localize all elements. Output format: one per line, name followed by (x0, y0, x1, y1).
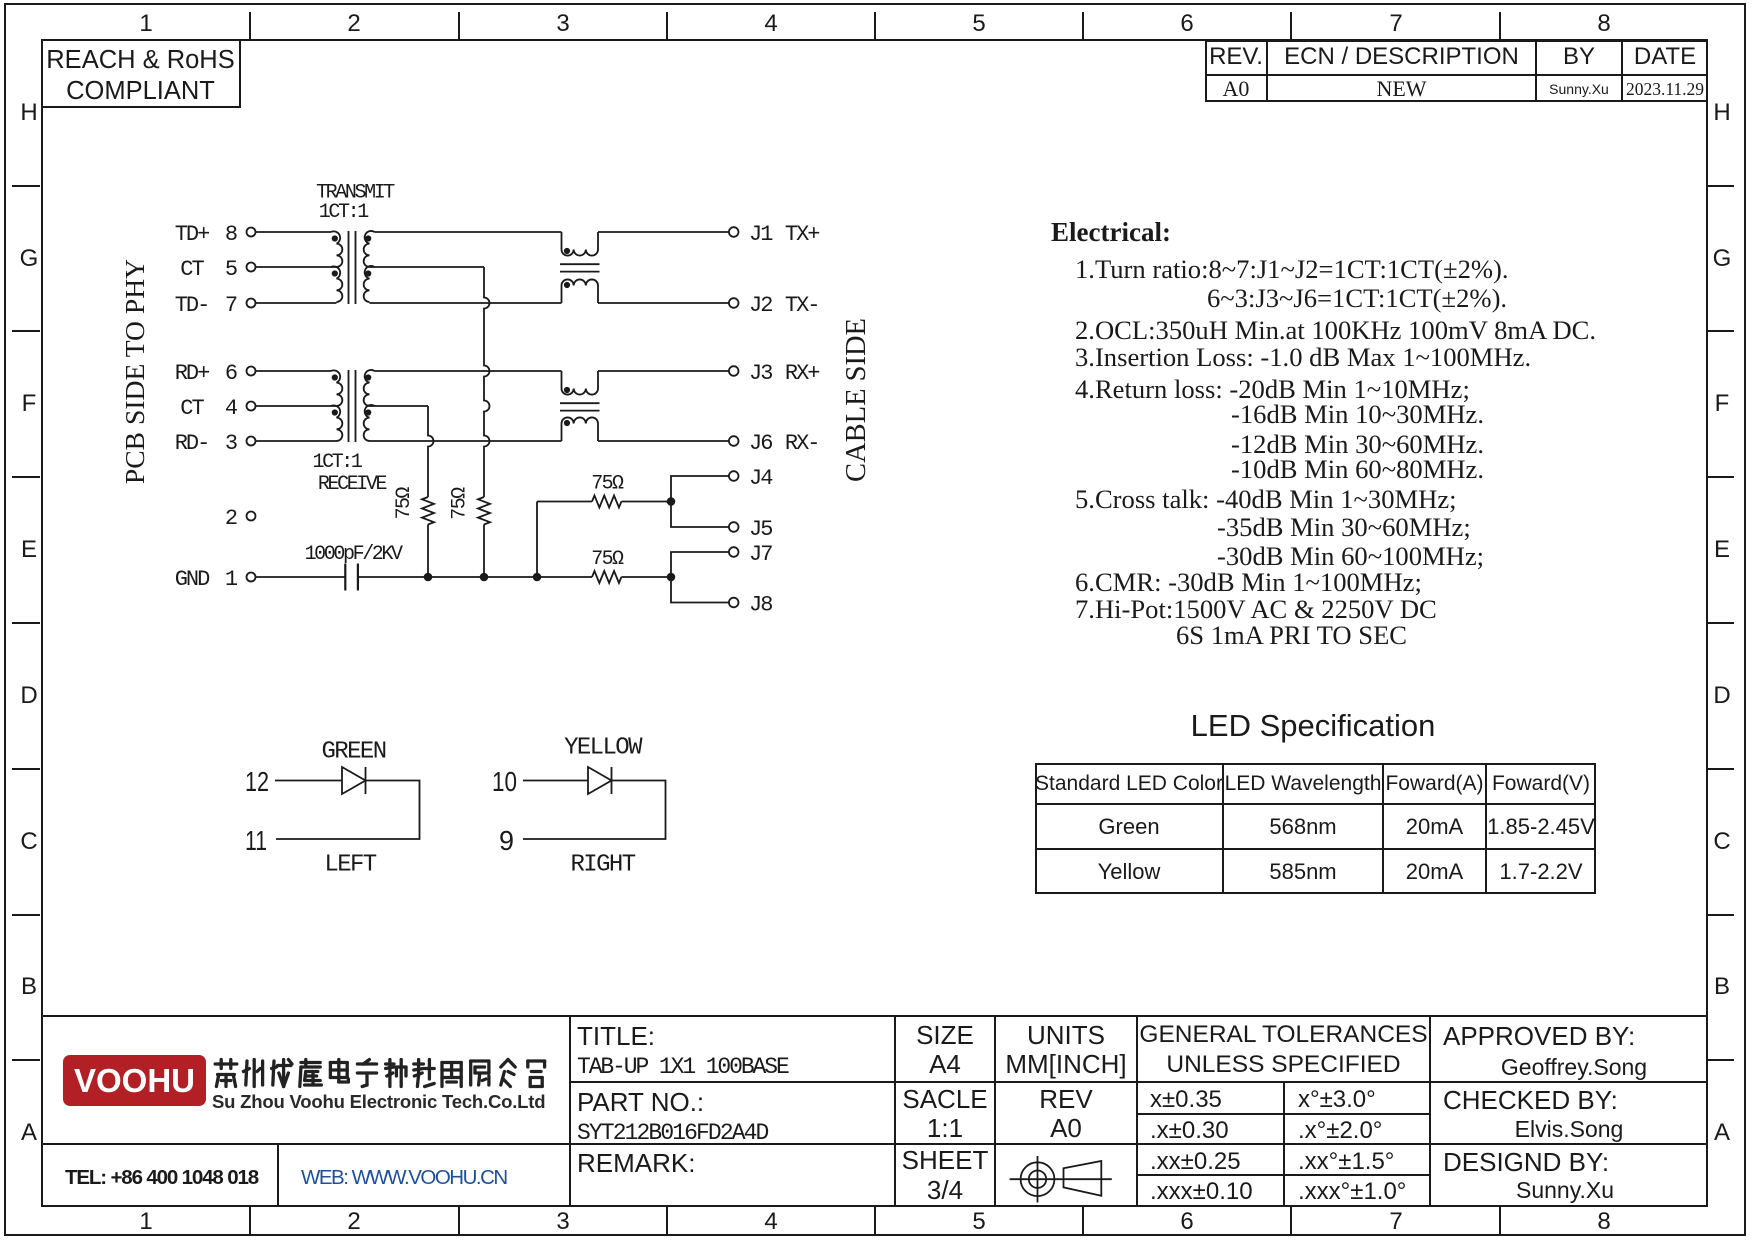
node junction J4/J5 (667, 497, 676, 506)
svg-text:RX-: RX- (785, 431, 819, 456)
pin J1 (TX+) (729, 227, 739, 237)
wire pin row (256, 405, 337, 407)
LED Specification (1043, 708, 1583, 744)
wire GND rail C1 to R4 (358, 576, 592, 578)
transformer T2 (RECEIVE) right winding (364, 370, 375, 406)
svg-text:J1: J1 (749, 222, 773, 247)
wire T1 secondary bottom to choke L1 (370, 302, 562, 304)
wire R4 to J7/J8 junction (621, 576, 671, 578)
svg-text:J4: J4 (749, 466, 773, 491)
node GND rail junction at branch riser (533, 573, 542, 582)
wire pin row (256, 302, 337, 304)
wire vertical from T1 CT to R2 (with crossover hops) (484, 267, 490, 497)
svg-text:10: 10 (492, 766, 517, 797)
wire R3 to J4/J5 junction (621, 501, 671, 503)
wire junction to J4 (671, 476, 729, 502)
svg-text:J2: J2 (749, 293, 772, 318)
wire GND rail to J4/J5 branch riser (536, 502, 538, 578)
wire LED D2 cathode loop to pin 9 (523, 781, 666, 840)
pin J5 (729, 522, 739, 532)
wire R1 to GND rail (427, 525, 429, 578)
svg-text:CABLE SIDE: CABLE SIDE (841, 318, 872, 482)
wire T2 secondary center tap (370, 405, 429, 407)
svg-text:TX+: TX+ (785, 222, 819, 247)
transformer T1 (TRANSMIT) left winding (331, 231, 342, 267)
svg-text:75Ω: 75Ω (448, 487, 471, 520)
resistor R3 75ohm (horizontal) (592, 496, 621, 508)
transformer T2 (RECEIVE) core (348, 370, 350, 442)
svg-text:2: 2 (225, 506, 237, 531)
node GND rail junction at R2 (480, 573, 489, 582)
common-mode choke L2 bottom winding (562, 417, 599, 441)
svg-text:1CT:1: 1CT:1 (312, 451, 362, 474)
svg-text:CT: CT (180, 396, 204, 421)
svg-text:75Ω: 75Ω (591, 472, 624, 495)
svg-text:1000pF/2KV: 1000pF/2KV (305, 543, 403, 566)
svg-text:12: 12 (245, 766, 269, 797)
wire T1 secondary center tap (370, 266, 485, 268)
wire T2 secondary top to choke L2 (375, 370, 562, 372)
title block (42, 1015, 1708, 1017)
svg-text:J3: J3 (749, 361, 772, 386)
svg-text:RX+: RX+ (785, 361, 819, 386)
transformer T2 (RECEIVE) left winding (331, 370, 342, 406)
svg-text:CT: CT (180, 257, 204, 282)
REACH & RoHS COMPLIANT box (42, 40, 241, 108)
first-angle projection symbol (1021, 1162, 1055, 1196)
svg-text:PCB SIDE TO PHY: PCB SIDE TO PHY (119, 259, 150, 484)
svg-text:75Ω: 75Ω (591, 548, 624, 571)
svg-text:8: 8 (225, 222, 237, 247)
wire choke L1 to J1 (598, 231, 729, 233)
svg-text:J5: J5 (749, 517, 772, 542)
wire GND pin to C1 (256, 576, 346, 578)
wire pin row (256, 266, 337, 268)
common-mode choke L2 top winding (562, 371, 599, 395)
wire pin 12 to LED D1 anode (275, 780, 342, 782)
pin J4 (729, 471, 739, 481)
svg-text:LEFT: LEFT (324, 852, 376, 879)
svg-text:RD-: RD- (175, 431, 209, 456)
svg-text:TD-: TD- (175, 293, 209, 318)
common-mode choke L1 top winding (562, 232, 599, 256)
wire junction to J7 (671, 552, 729, 577)
svg-text:1CT:1: 1CT:1 (319, 201, 369, 224)
svg-text:6: 6 (225, 361, 237, 386)
svg-text:RECEIVE: RECEIVE (318, 473, 387, 496)
wire R2 to GND rail (483, 525, 485, 578)
svg-text:3: 3 (225, 431, 237, 456)
resistor R4 75ohm (horizontal, on GND rail) (592, 571, 621, 583)
common-mode choke L2 core (560, 402, 600, 404)
transformer T1 (TRANSMIT) right winding (364, 231, 375, 267)
wire junction to J5 (671, 502, 729, 528)
svg-text:RD+: RD+ (175, 361, 209, 386)
svg-text:1: 1 (225, 567, 238, 592)
svg-text:7: 7 (225, 293, 237, 318)
wire LED D1 cathode loop to pin 11 (276, 781, 420, 840)
pin J7 (729, 547, 739, 557)
svg-text:5: 5 (225, 257, 237, 282)
svg-text:75Ω: 75Ω (393, 487, 416, 520)
svg-text:J7: J7 (749, 542, 772, 567)
pin J6 (RX-) (729, 436, 739, 446)
pin J8 (729, 598, 739, 608)
wire junction to J8 (671, 577, 729, 603)
wire pin row (256, 231, 332, 233)
svg-text:TD+: TD+ (175, 222, 209, 247)
ruler ticks (249, 12, 251, 40)
wire pin row (256, 440, 337, 442)
resistor R1 75ohm (vertical) (422, 497, 434, 524)
capacitor C1 1000pF/2KV (344, 564, 346, 591)
LED D1 (GREEN) diode symbol (342, 767, 366, 794)
node junction J7/J8 (667, 573, 676, 582)
svg-text:RIGHT: RIGHT (570, 852, 635, 879)
wire T2 secondary bottom to choke L2 (370, 440, 562, 442)
svg-text:J6: J6 (749, 431, 772, 456)
common-mode choke L1 core (560, 263, 600, 265)
pin J2 (TX-) (729, 298, 739, 308)
wire choke L2 to J6 (598, 440, 729, 442)
wire vertical from T2 CT to R1 (with crossover hop) (428, 406, 434, 497)
REV / ECN table top right (1205, 40, 1708, 102)
LED D2 (YELLOW) diode symbol (588, 767, 612, 794)
svg-text:9: 9 (499, 825, 514, 856)
svg-text:GREEN: GREEN (321, 739, 385, 766)
transformer T2 (RECEIVE) polarity dots (332, 374, 338, 380)
svg-text:11: 11 (245, 825, 267, 856)
svg-text:GND: GND (175, 567, 210, 592)
Electrical text block (1051, 217, 1171, 248)
transformer T1 (TRANSMIT) polarity dots (332, 235, 338, 241)
ruler labels (126, 10, 166, 38)
svg-text:YELLOW: YELLOW (564, 735, 643, 762)
svg-text:TX-: TX- (785, 293, 819, 318)
wire riser to R3 (537, 501, 592, 503)
wire pin row (256, 370, 332, 372)
svg-text:4: 4 (225, 396, 238, 421)
wire pin 10 to LED D2 anode (523, 780, 588, 782)
node GND rail junction at R1 (424, 573, 433, 582)
company CJK name (stylized strokes) (212, 1056, 550, 1090)
svg-text:J8: J8 (749, 593, 772, 618)
wire choke L1 to J2 (598, 302, 729, 304)
wire T1 secondary top to choke L1 (375, 231, 562, 233)
wire choke L2 to J3 (598, 370, 729, 372)
resistor R2 75ohm (vertical) (478, 497, 490, 524)
transformer T1 (TRANSMIT) core (348, 231, 350, 304)
pin J3 (RX+) (729, 366, 739, 376)
common-mode choke L1 bottom winding (562, 279, 599, 303)
